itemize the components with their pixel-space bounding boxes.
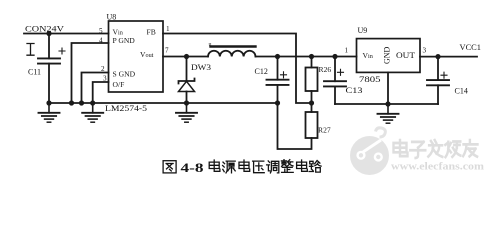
ground at pin3 leg bbox=[82, 103, 103, 122]
node DW3 to ground rail bbox=[184, 100, 189, 105]
svg-text:R26: R26 bbox=[319, 65, 332, 74]
svg-text:Vin: Vin bbox=[113, 27, 123, 36]
调 bbox=[267, 161, 279, 173]
svg-text:C13: C13 bbox=[346, 86, 363, 95]
node C14 tap bbox=[435, 54, 440, 59]
svg-text:DW3: DW3 bbox=[191, 63, 211, 72]
友 bbox=[463, 140, 477, 156]
node U9 gnd on rail bbox=[385, 101, 390, 106]
connector symbol CON24V bbox=[27, 44, 34, 56]
zener diode DW3 bbox=[179, 57, 212, 104]
svg-text:LM2574-5: LM2574-5 bbox=[105, 104, 147, 113]
svg-text:U8: U8 bbox=[107, 13, 117, 22]
svg-text:GND: GND bbox=[383, 46, 392, 64]
node pin4 on rail bbox=[69, 100, 74, 105]
源 bbox=[223, 161, 236, 173]
wire inductor to U9 pin 1 bbox=[256, 56, 357, 58]
resistor R26 bbox=[306, 57, 332, 104]
wire CON24V input to U8 pin 5 bbox=[24, 33, 109, 35]
wire U9 GND pin to ground rail bbox=[387, 72, 389, 104]
电 bbox=[394, 140, 408, 156]
node R26 tap bbox=[309, 54, 314, 59]
node pin3 on rail bbox=[90, 100, 95, 105]
svg-text:OUT: OUT bbox=[396, 51, 415, 60]
capacitor C12 bbox=[255, 57, 289, 104]
node: C11 tap on input wire bbox=[46, 31, 51, 36]
svg-text:u: u bbox=[209, 42, 212, 48]
图 bbox=[163, 161, 176, 173]
capacitor C13 bbox=[324, 57, 363, 105]
电 (2) bbox=[239, 160, 250, 171]
svg-text:7805: 7805 bbox=[359, 75, 381, 84]
整 bbox=[281, 160, 293, 173]
svg-text:7: 7 bbox=[165, 47, 169, 55]
路 bbox=[309, 161, 321, 173]
压 bbox=[253, 161, 265, 173]
caption: 图 4-8 电源电压调整电路 (pseudo glyphs) bbox=[163, 160, 321, 175]
电 (3) bbox=[297, 160, 308, 171]
svg-text:C11: C11 bbox=[28, 68, 41, 77]
svg-text:FB: FB bbox=[147, 27, 156, 36]
capacitor C14 bbox=[427, 57, 468, 104]
发 bbox=[428, 140, 442, 157]
svg-text:www.elecfans.com: www.elecfans.com bbox=[391, 162, 484, 173]
inductor L1 bbox=[208, 42, 256, 57]
node FB junction R26/R27 bbox=[309, 100, 314, 105]
svg-text:P GND: P GND bbox=[113, 36, 136, 45]
node C12 to ground rail bbox=[275, 100, 280, 105]
node: C11 to ground rail bbox=[46, 100, 51, 105]
op-amp U8 regulator LM2574-5 body bbox=[109, 21, 164, 92]
wire U8 pin 1 FB feedback bbox=[163, 34, 312, 104]
ground rail right section bbox=[335, 103, 438, 105]
wire U8 pin 2 S GND to ground rail bbox=[82, 73, 109, 104]
watermark logo circle bbox=[350, 128, 389, 175]
ground at DW3 bbox=[176, 103, 197, 122]
电 bbox=[209, 160, 220, 171]
resistor R27 bbox=[306, 103, 331, 138]
wire ground return loop under R27 bbox=[278, 103, 312, 149]
ground at C11 bbox=[39, 103, 60, 122]
wire U8 pin 3 O/F to ground rail bbox=[93, 82, 109, 103]
wire U8 pin 4 P GND to ground rail bbox=[72, 43, 109, 103]
svg-text:CON24V: CON24V bbox=[25, 23, 65, 33]
node pin2 on rail bbox=[79, 100, 84, 105]
svg-text:1: 1 bbox=[345, 47, 349, 55]
svg-text:4-8: 4-8 bbox=[181, 160, 205, 175]
ground at U9 bbox=[378, 104, 399, 123]
svg-text:VCC1: VCC1 bbox=[460, 43, 482, 52]
watermark 电子发烧友 pseudo glyphs bbox=[394, 140, 478, 158]
子 bbox=[410, 142, 425, 158]
node DW3 tap bbox=[184, 54, 189, 59]
capacitor C11 bbox=[28, 34, 65, 104]
svg-text:Vout: Vout bbox=[140, 50, 154, 59]
烧 bbox=[445, 141, 460, 157]
wire U9 OUT to VCC1 bbox=[420, 56, 477, 58]
svg-text:C14: C14 bbox=[455, 86, 468, 95]
svg-text:O/F: O/F bbox=[113, 80, 125, 89]
svg-text:C12: C12 bbox=[255, 67, 268, 76]
svg-text:U9: U9 bbox=[358, 26, 368, 35]
svg-text:1: 1 bbox=[166, 25, 170, 33]
node C12 tap bbox=[275, 54, 280, 59]
wire U8 pin 7 Vout to inductor bbox=[163, 56, 208, 58]
svg-text:5: 5 bbox=[99, 27, 103, 35]
node C13 tap bbox=[332, 54, 337, 59]
ground rail left section bbox=[49, 102, 278, 104]
svg-text:S GND: S GND bbox=[113, 70, 136, 79]
svg-text:Vin: Vin bbox=[363, 51, 373, 60]
op-amp U9 regulator 7805 body bbox=[357, 39, 421, 73]
svg-text:3: 3 bbox=[423, 47, 427, 55]
svg-text:R27: R27 bbox=[318, 126, 331, 135]
